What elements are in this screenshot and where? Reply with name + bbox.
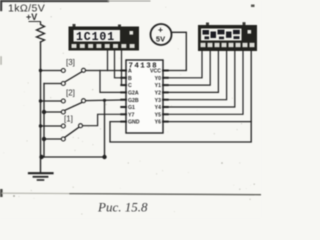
wire Y4 to DS2 leg5 [163,51,235,107]
wire sw1 to pin Y7 [83,114,126,125]
svg-text:Y5: Y5 [155,112,161,118]
svg-text:Y3: Y3 [155,98,161,104]
pin stubs right [163,71,168,122]
display DS1 (left module) [69,27,140,51]
wire: left supply/ground rail [40,42,42,173]
svg-text:Y6: Y6 [155,120,161,126]
pin stubs left [121,71,126,122]
wire DS1 leg3 to pin C [122,51,127,86]
resistor R1 (1kΩ pull-up) [37,22,45,42]
svg-text:G2A: G2A [128,91,139,97]
wire: second rail for switch lower contacts [43,84,45,158]
node: junction dots [42,110,46,114]
svg-text:Y1: Y1 [155,83,161,89]
svg-text:Y2: Y2 [155,91,161,97]
wire Y2 to DS2 leg3 [163,51,218,92]
svg-text:Рис. 15.8: Рис. 15.8 [97,200,148,215]
wire Y0 to DS2 leg1 [163,51,202,78]
svg-text:B: B [128,76,132,82]
svg-text:Y0: Y0 [155,76,161,82]
svg-text:[1]: [1] [64,115,73,124]
wire Y1 to DS2 leg2 [163,51,210,85]
svg-text:Y7: Y7 [128,112,134,118]
svg-text:+V: +V [26,12,37,22]
power source +5V [151,24,172,45]
ground [29,172,53,174]
display DS2 (right module) [198,25,257,51]
svg-text:G2B: G2B [128,98,139,104]
svg-text:5V: 5V [156,35,165,44]
wire GND loop to DS2 leg7 [110,51,251,142]
wire Y5 to DS2 leg6 [163,51,243,114]
svg-text:G1: G1 [128,105,135,111]
svg-text:VCC: VCC [150,69,161,75]
wire Y6 to DS2 leg7 [163,121,251,123]
svg-text:Y4: Y4 [155,105,161,111]
wire Y3 to DS2 leg4 [163,51,227,100]
node dot [102,155,106,159]
wire DS1 leg1 to pin A [107,51,109,71]
svg-text:[3]: [3] [66,58,75,67]
svg-text:A: A [128,69,132,75]
wire sw3 branch to pin G2A [100,71,126,93]
svg-text:+: + [158,25,163,35]
wire DS1 leg2 to pin B [115,51,127,78]
svg-text:C: C [128,83,132,89]
wire sw2 to pin G2B [86,99,126,102]
IC U1 74138 [126,60,163,133]
svg-text:GND: GND [128,120,140,126]
wire: ground bus to IC area [41,156,105,158]
wire: ground tie from sw2 line down [104,100,106,157]
wire +5V to VCC [163,32,186,70]
wire sw3 to pin A [86,70,126,72]
svg-text:[2]: [2] [66,89,75,98]
svg-text:1C101: 1C101 [76,31,115,44]
